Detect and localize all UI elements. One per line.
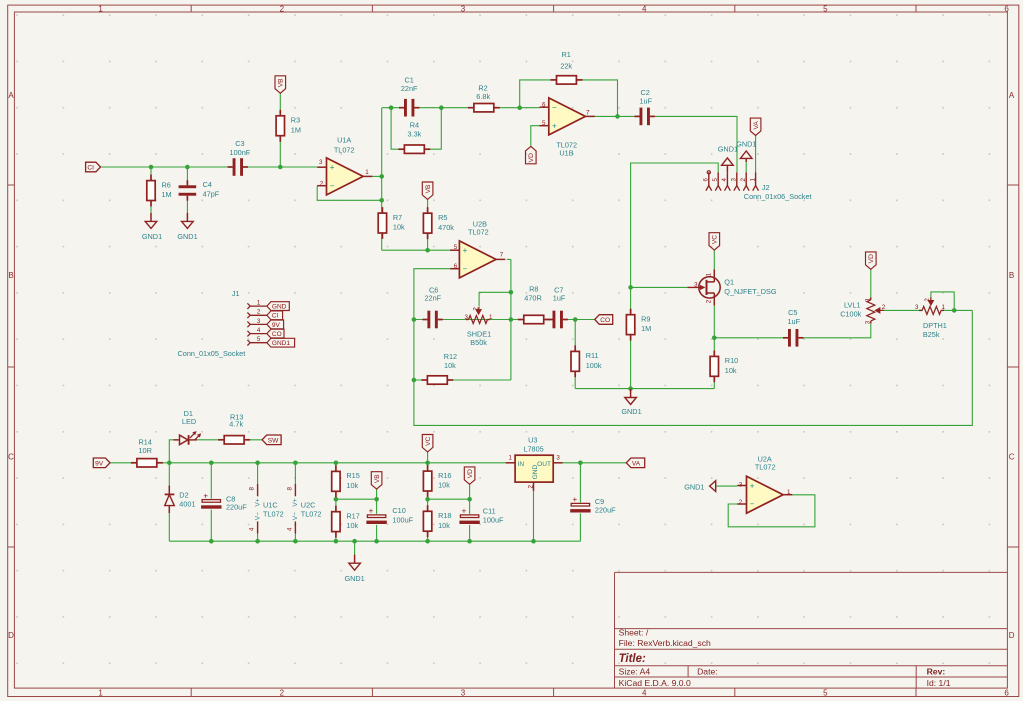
svg-text:V+: V+ [292,498,299,506]
svg-text:2: 2 [882,304,886,311]
svg-text:7: 7 [500,251,504,258]
svg-text:5: 5 [823,5,828,14]
svg-text:10k: 10k [438,481,450,490]
svg-text:VD: VD [528,153,535,162]
svg-text:IN: IN [518,461,525,468]
svg-text:6: 6 [1004,688,1009,697]
svg-text:1: 1 [787,489,791,496]
svg-text:10k: 10k [438,521,450,530]
svg-text:6.8k: 6.8k [476,92,490,101]
svg-text:V−: V− [254,512,261,520]
svg-text:Conn_01x05_Socket: Conn_01x05_Socket [178,349,246,358]
svg-text:220uF: 220uF [226,502,247,511]
svg-text:R17: R17 [346,511,359,520]
svg-text:6: 6 [1004,5,1009,14]
svg-text:3: 3 [257,318,261,325]
svg-text:VD: VD [868,254,875,263]
svg-text:1: 1 [98,688,103,697]
svg-text:6: 6 [542,101,546,108]
svg-text:8: 8 [249,487,256,491]
svg-text:C: C [1009,453,1015,462]
svg-text:4: 4 [642,688,647,697]
svg-text:1: 1 [509,455,513,462]
svg-text:R18: R18 [438,511,451,520]
svg-text:5: 5 [542,120,546,127]
svg-text:100nF: 100nF [230,148,251,157]
svg-text:3: 3 [556,455,560,462]
svg-text:Sheet: /: Sheet: / [619,628,649,638]
svg-text:R6: R6 [162,180,171,189]
svg-text:D: D [1009,631,1015,640]
svg-text:Conn_01x06_Socket: Conn_01x06_Socket [744,192,812,201]
svg-text:+: + [369,507,374,516]
svg-text:TL072: TL072 [468,228,489,237]
svg-text:−: − [463,264,468,273]
svg-text:B50k: B50k [470,338,487,347]
svg-text:C11: C11 [483,507,496,516]
svg-text:1: 1 [865,298,872,302]
svg-text:GND1: GND1 [272,340,290,347]
svg-text:OUT: OUT [537,461,551,468]
svg-text:10R: 10R [139,446,152,455]
svg-text:LED: LED [182,417,196,426]
svg-text:U3: U3 [528,436,537,445]
svg-text:Q1: Q1 [724,278,734,287]
svg-text:C4: C4 [203,180,212,189]
svg-text:+: + [330,163,335,172]
svg-text:CI: CI [272,313,279,320]
svg-text:470k: 470k [438,223,454,232]
svg-text:1: 1 [706,272,713,276]
svg-text:VB: VB [374,474,381,483]
svg-text:5: 5 [823,688,828,697]
svg-text:TL072: TL072 [263,509,284,518]
svg-text:−: − [552,103,557,112]
svg-text:1: 1 [489,314,493,321]
svg-text:9V: 9V [272,322,281,329]
svg-text:1uF: 1uF [788,317,801,326]
svg-text:1: 1 [257,300,261,307]
svg-text:R7: R7 [393,213,402,222]
svg-text:GND1: GND1 [684,482,704,491]
svg-text:VC: VC [425,437,432,446]
svg-text:+: + [572,495,577,504]
svg-text:9V: 9V [95,460,104,467]
svg-text:J2: J2 [762,183,770,192]
svg-text:Title:: Title: [619,653,646,665]
svg-text:TL072: TL072 [755,463,776,472]
svg-text:10k: 10k [444,361,456,370]
svg-text:5: 5 [454,244,458,251]
svg-text:GND1: GND1 [177,232,197,241]
svg-text:SW: SW [268,437,279,444]
svg-text:GND1: GND1 [736,140,756,149]
svg-text:GND: GND [532,464,539,479]
svg-text:R12: R12 [444,352,457,361]
svg-text:CO: CO [600,317,610,324]
svg-text:100k: 100k [586,361,602,370]
svg-text:Size: A4: Size: A4 [619,667,651,677]
svg-text:Id: 1/1: Id: 1/1 [927,678,951,688]
svg-text:2: 2 [280,688,285,697]
svg-text:VC: VC [712,235,719,244]
svg-text:1uF: 1uF [640,97,653,106]
svg-text:−: − [330,181,335,190]
svg-text:4: 4 [642,5,647,14]
svg-text:B: B [8,271,13,280]
svg-text:2: 2 [924,298,931,302]
svg-text:2: 2 [706,299,713,303]
svg-text:B25k: B25k [923,330,940,339]
svg-text:CO: CO [272,331,282,338]
svg-text:C5: C5 [788,308,797,317]
svg-text:10k: 10k [725,366,737,375]
svg-text:22nF: 22nF [424,294,441,303]
svg-text:6: 6 [454,263,458,270]
svg-text:TL072: TL072 [301,509,322,518]
svg-text:J1: J1 [232,289,240,298]
svg-text:V+: V+ [254,498,261,506]
svg-text:A: A [8,91,14,100]
svg-text:1uF: 1uF [553,294,566,303]
svg-text:2: 2 [527,485,534,489]
svg-text:7: 7 [586,109,590,116]
svg-text:L7805: L7805 [523,444,543,453]
svg-text:C3: C3 [235,139,244,148]
svg-text:VB: VB [278,78,285,87]
svg-text:3: 3 [731,178,738,182]
svg-text:+: + [462,507,467,516]
svg-text:3: 3 [319,159,323,166]
svg-text:2: 2 [320,181,324,188]
svg-text:3: 3 [461,688,466,697]
svg-text:VD: VD [467,469,474,478]
svg-text:CI: CI [87,165,94,172]
svg-text:GND: GND [272,304,287,311]
svg-text:GND1: GND1 [142,232,162,241]
svg-text:3: 3 [465,314,469,321]
svg-text:D2: D2 [179,491,188,500]
svg-text:+: + [552,121,557,130]
svg-text:1: 1 [365,169,369,176]
svg-text:4: 4 [257,327,261,334]
svg-text:2: 2 [739,499,743,506]
svg-text:10k: 10k [346,521,358,530]
svg-text:GND1: GND1 [621,407,641,416]
svg-text:LVL1: LVL1 [844,301,861,310]
svg-text:VA: VA [632,460,641,467]
svg-text:U1B: U1B [559,149,573,158]
svg-text:10k: 10k [346,481,358,490]
svg-text:10k: 10k [393,223,405,232]
svg-text:D: D [8,631,14,640]
svg-text:100uF: 100uF [483,515,504,524]
svg-text:2: 2 [257,309,261,316]
svg-text:VA: VA [753,121,760,130]
svg-text:4: 4 [249,527,256,531]
svg-text:4: 4 [286,527,293,531]
svg-text:3.3k: 3.3k [408,129,422,138]
svg-text:R15: R15 [346,471,359,480]
svg-text:22nF: 22nF [401,84,418,93]
svg-text:6: 6 [703,178,710,182]
svg-text:Rev:: Rev: [927,667,946,677]
svg-text:5: 5 [257,336,261,343]
svg-text:GND1: GND1 [718,144,738,153]
svg-text:2: 2 [280,5,285,14]
svg-text:100uF: 100uF [392,515,413,524]
svg-text:R16: R16 [438,471,451,480]
svg-text:R5: R5 [438,213,447,222]
svg-text:File: RexVerb.kicad_sch: File: RexVerb.kicad_sch [619,638,711,648]
svg-text:Q_NJFET_DSG: Q_NJFET_DSG [724,287,777,296]
svg-text:1: 1 [942,304,946,311]
svg-text:GND1: GND1 [344,574,364,583]
svg-text:3: 3 [461,5,466,14]
svg-text:3: 3 [694,281,698,288]
svg-text:220uF: 220uF [595,506,616,515]
svg-text:+: + [463,246,468,255]
svg-text:R9: R9 [641,314,650,323]
svg-text:V−: V− [292,512,299,520]
svg-text:TL072: TL072 [334,146,355,155]
svg-text:1: 1 [749,178,756,182]
svg-text:3: 3 [915,304,919,311]
svg-text:1: 1 [98,5,103,14]
svg-text:R1: R1 [562,50,571,59]
svg-text:8: 8 [286,487,293,491]
svg-text:22k: 22k [560,62,572,71]
svg-text:R4: R4 [410,120,419,129]
svg-text:R3: R3 [291,116,300,125]
svg-text:VB: VB [425,184,432,193]
svg-text:R11: R11 [586,351,599,360]
svg-text:U2C: U2C [301,500,316,509]
svg-text:R10: R10 [725,356,738,365]
svg-text:1M: 1M [641,324,651,333]
svg-text:5: 5 [712,178,719,182]
svg-text:−: − [750,500,755,509]
svg-text:47pF: 47pF [203,190,220,199]
svg-text:4: 4 [721,178,728,182]
svg-text:Date:: Date: [697,667,718,677]
svg-text:R8: R8 [529,285,538,294]
svg-text:U1A: U1A [337,136,351,145]
svg-text:3: 3 [739,482,743,489]
svg-text:KiCad E.D.A. 9.0.0: KiCad E.D.A. 9.0.0 [619,678,691,688]
svg-text:B: B [1009,271,1014,280]
svg-text:C: C [8,453,14,462]
svg-text:+: + [750,482,755,491]
svg-text:1M: 1M [162,190,172,199]
svg-text:4.7k: 4.7k [229,420,243,429]
svg-text:DPTH1: DPTH1 [923,321,947,330]
svg-text:2: 2 [740,178,747,182]
svg-text:3: 3 [865,320,872,324]
svg-text:+: + [203,491,208,500]
svg-text:U1C: U1C [263,500,278,509]
svg-text:C10: C10 [392,506,405,515]
svg-text:A: A [1009,91,1015,100]
svg-text:1M: 1M [291,125,301,134]
svg-text:4001: 4001 [179,500,195,509]
svg-text:2: 2 [472,307,479,311]
svg-text:470R: 470R [524,294,541,303]
svg-text:C100k: C100k [840,310,861,319]
